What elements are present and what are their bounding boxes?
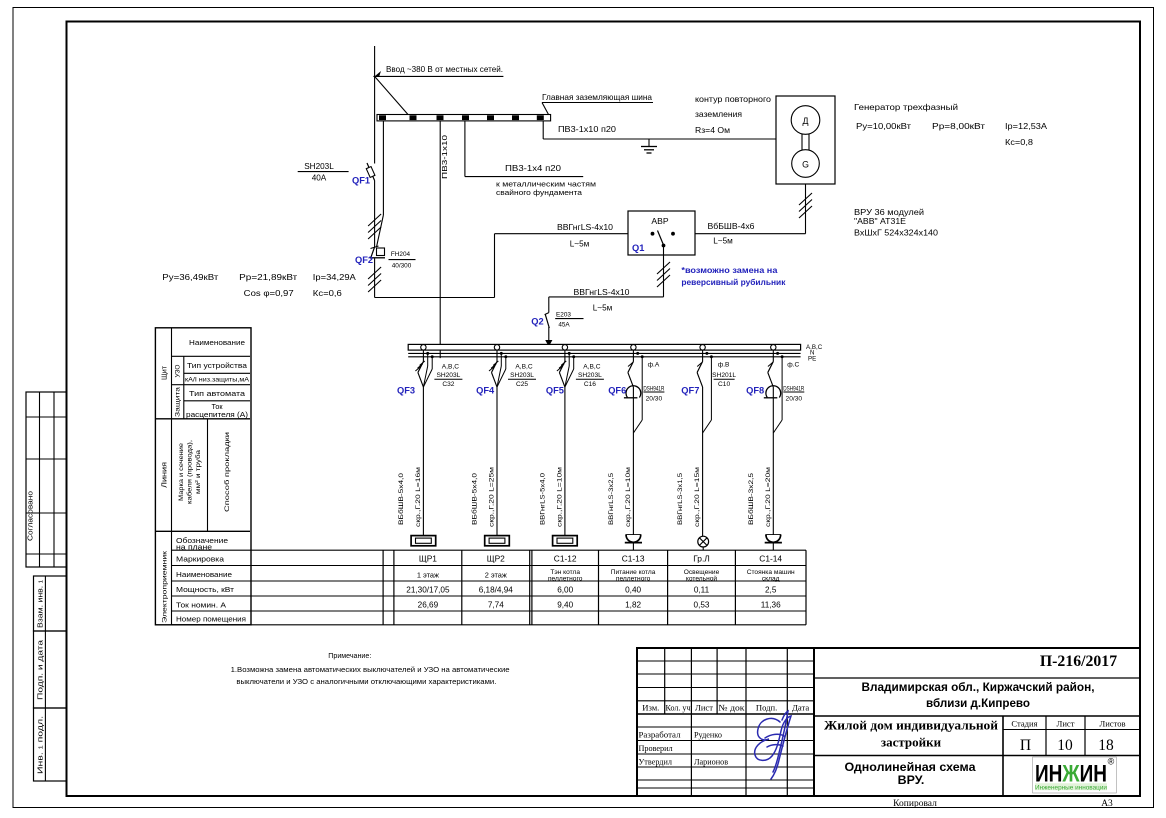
svg-text:SH203L: SH203L (510, 372, 534, 379)
svg-text:DSH941R: DSH941R (783, 385, 804, 392)
svg-text:Кол. уч: Кол. уч (666, 703, 692, 713)
svg-text:Копировал: Копировал (893, 799, 937, 809)
svg-text:1 этаж: 1 этаж (417, 571, 439, 580)
svg-text:скр.,Г.20 L=25м: скр.,Г.20 L=25м (489, 466, 496, 527)
svg-text:SH203L: SH203L (578, 372, 602, 379)
svg-text:26,69: 26,69 (418, 601, 439, 610)
svg-text:С1-12: С1-12 (554, 553, 577, 563)
svg-text:свайного фундамента: свайного фундамента (496, 188, 582, 197)
svg-text:Кс=0,8: Кс=0,8 (1005, 137, 1033, 147)
circuit breaker QF1 (367, 163, 375, 181)
PE conductor ПВ3-1х10 from bus down to PE rail (439, 121, 441, 358)
svg-text:1,82: 1,82 (625, 601, 641, 610)
svg-text:Маркировка: Маркировка (176, 555, 225, 564)
ground symbol (648, 139, 650, 146)
svg-text:0,40: 0,40 (625, 586, 641, 595)
svg-text:С1-13: С1-13 (622, 553, 645, 563)
svg-text:FH204: FH204 (391, 251, 411, 258)
load symbol socket QF6 (632, 527, 634, 535)
svg-text:SH203L: SH203L (304, 162, 334, 171)
svg-text:Генератор трехфазный: Генератор трехфазный (854, 102, 958, 112)
left stamp Инв. № подл. (34, 708, 67, 781)
svg-text:Способ прокладки: Способ прокладки (223, 432, 231, 512)
circuit breaker QF7 (697, 362, 703, 373)
N conductor from bus to QF2 (382, 121, 384, 215)
svg-text:Q2: Q2 (531, 317, 543, 327)
svg-text:кабеля (провода),: кабеля (провода), (186, 440, 194, 504)
svg-text:QF4: QF4 (476, 386, 495, 396)
switch Q2 E203 45A (548, 297, 550, 313)
svg-text:Дата: Дата (792, 703, 809, 713)
svg-text:Наименование: Наименование (189, 338, 245, 347)
RCD symbol DSH941R (766, 386, 781, 398)
svg-text:Тип устройства: Тип устройства (187, 361, 247, 370)
svg-text:Ларионов: Ларионов (694, 758, 728, 767)
svg-text:С10: С10 (718, 381, 730, 388)
svg-text:Наименование: Наименование (176, 570, 232, 579)
svg-text:Iр=12,53А: Iр=12,53А (1005, 121, 1047, 131)
svg-text:QF8: QF8 (746, 386, 764, 396)
svg-text:РЕ: РЕ (808, 356, 816, 363)
svg-text:45А: 45А (558, 321, 570, 328)
svg-text:Владимирская обл., Киржачский: Владимирская обл., Киржачский район, (862, 680, 1095, 694)
svg-text:С32: С32 (442, 381, 454, 388)
svg-text:Жилой дом индивидуальной: Жилой дом индивидуальной (824, 718, 999, 733)
svg-text:Подп. и дата: Подп. и дата (36, 640, 45, 700)
title block frame (637, 648, 1140, 796)
ATS box АВР with changeover switch Q1 (628, 211, 695, 255)
node PE tap QF4 (504, 355, 507, 358)
circuit breaker QF4 (492, 362, 498, 373)
svg-text:ф.С: ф.С (787, 362, 799, 369)
svg-text:мм² и труба: мм² и труба (194, 450, 202, 494)
wire ATS output down (663, 246, 665, 297)
shaft coupling (801, 134, 803, 150)
svg-text:П: П (1020, 737, 1031, 754)
wire QF2 down to ATS feed (374, 259, 376, 298)
svg-text:пеллетного: пеллетного (616, 575, 651, 582)
svg-text:Главная заземляющая шина: Главная заземляющая шина (542, 93, 652, 102)
svg-text:ЩР1: ЩР1 (419, 553, 437, 563)
svg-text:11,36: 11,36 (761, 601, 781, 610)
svg-text:Согласовано: Согласовано (26, 491, 35, 541)
svg-text:Cos φ=0,97: Cos φ=0,97 (244, 288, 294, 298)
wire generator to ATS right input (805, 184, 807, 234)
svg-text:Рр=8,00кВт: Рр=8,00кВт (932, 121, 985, 131)
left stamp table Согласовано (26, 392, 67, 567)
svg-text:С25: С25 (516, 381, 528, 388)
svg-text:ВВГнгLS-3х2,5: ВВГнгLS-3х2,5 (608, 473, 615, 525)
svg-text:Щит: Щит (160, 365, 169, 380)
svg-text:№ док: № док (719, 703, 746, 713)
load symbol rect QF3 (422, 527, 424, 536)
svg-text:ПВ3-1х10: ПВ3-1х10 (440, 135, 449, 179)
svg-text:QF5: QF5 (546, 386, 564, 396)
node N tap QF3 (426, 352, 429, 355)
wire branch QF3 down (422, 387, 424, 527)
svg-text:Инженерные инновации: Инженерные инновации (1035, 785, 1107, 791)
branch QF7 tap on busbar (700, 345, 705, 350)
svg-text:10: 10 (1057, 737, 1073, 754)
PE rail (408, 356, 800, 358)
wire: QF2 output to ATS left input (375, 297, 495, 299)
svg-text:ВБбШВ-5х4,0: ВБбШВ-5х4,0 (397, 473, 405, 525)
svg-text:SH203L: SH203L (436, 372, 460, 379)
svg-text:Q1: Q1 (632, 243, 644, 253)
svg-text:скр.,Г.20 L=15м: скр.,Г.20 L=15м (694, 466, 701, 527)
svg-text:С1-14: С1-14 (759, 553, 782, 563)
svg-text:УЗО: УЗО (175, 364, 182, 377)
svg-text:Rз=4 Ом: Rз=4 Ом (695, 126, 730, 135)
svg-text:6,00: 6,00 (557, 586, 573, 595)
svg-text:1.Возможна замена автоматическ: 1.Возможна замена автоматических выключа… (231, 665, 510, 674)
data table columns (382, 550, 384, 625)
svg-text:Ру=36,49кВт: Ру=36,49кВт (162, 272, 218, 282)
svg-text:9,40: 9,40 (557, 601, 573, 610)
node PE tap QF7 (710, 355, 713, 358)
svg-text:АВР: АВР (651, 216, 668, 226)
svg-text:Инв. 1 подл.: Инв. 1 подл. (36, 716, 45, 774)
svg-text:QF6: QF6 (608, 386, 626, 396)
svg-text:Изм.: Изм. (642, 703, 659, 713)
svg-text:пеллетного: пеллетного (548, 575, 583, 582)
svg-text:40А: 40А (312, 174, 327, 183)
svg-text:Гр.Л: Гр.Л (693, 553, 710, 563)
circuit breaker QF8 (768, 362, 774, 373)
data table rows (172, 549, 807, 551)
branch QF5 tap on busbar (562, 345, 567, 350)
svg-text:Марка и сечение: Марка и сечение (178, 443, 185, 501)
svg-text:скр.,Г.20 L=20м: скр.,Г.20 L=20м (765, 466, 772, 527)
circuit breaker QF3 (418, 362, 424, 373)
svg-text:Стадия: Стадия (1011, 719, 1037, 729)
svg-text:А,В,С: А,В,С (442, 364, 459, 371)
schedule header table (155, 328, 251, 625)
node PE tap QF6 (641, 355, 644, 358)
svg-text:С16: С16 (584, 381, 596, 388)
load symbol lamp QF7 (702, 527, 704, 536)
svg-text:Защита: Защита (175, 386, 182, 417)
svg-text:"АВВ" АТ31Е: "АВВ" АТ31Е (854, 217, 907, 226)
svg-text:Лист: Лист (1057, 719, 1075, 729)
svg-text:QF3: QF3 (397, 386, 415, 396)
svg-text:котельной: котельной (686, 574, 717, 582)
node N tap QF5 (568, 352, 571, 355)
wire branch QF5 down (564, 387, 566, 527)
load symbol rect QF4 (496, 527, 498, 536)
main earthing bus ГЗШ (377, 115, 551, 121)
circuit breaker QF5 (559, 362, 565, 373)
signature (blue scribble) (755, 711, 791, 779)
N rail (408, 352, 800, 354)
RCD QF2 (FH204 40/300) (371, 247, 375, 259)
svg-text:ВБбШВ-5х4,0: ВБбШВ-5х4,0 (471, 473, 479, 525)
circuit breaker QF6 (628, 362, 634, 373)
svg-text:ВхШхГ 524х324х140: ВхШхГ 524х324х140 (854, 229, 938, 238)
svg-text:склад: склад (762, 575, 780, 582)
left stamp Взам. инв. № (34, 576, 67, 631)
svg-text:ПВ3-1х4 п20: ПВ3-1х4 п20 (505, 164, 562, 173)
Линия section (207, 419, 209, 532)
svg-text:Проверил: Проверил (639, 744, 673, 753)
node: input 380V arrow (374, 46, 376, 76)
wire branch QF7 down (702, 387, 704, 527)
node N tap QF7 (705, 352, 708, 355)
svg-text:заземления: заземления (695, 110, 742, 119)
branch QF3 tap on busbar (421, 345, 426, 350)
svg-text:вблизи д.Кипрево: вблизи д.Кипрево (926, 696, 1030, 710)
svg-text:скр.,Г.20 L=10м: скр.,Г.20 L=10м (556, 466, 563, 527)
branch QF6 tap on busbar (631, 345, 636, 350)
svg-text:QF1: QF1 (352, 176, 370, 186)
title block left grid (664, 648, 666, 714)
svg-text:Разработал: Разработал (639, 731, 681, 740)
svg-text:ВбБШВ-4х6: ВбБШВ-4х6 (708, 222, 755, 231)
svg-text:П-216/2017: П-216/2017 (1040, 653, 1117, 670)
svg-text:7,74: 7,74 (488, 601, 504, 610)
svg-text:А,В,С: А,В,С (583, 364, 600, 371)
generator box (776, 96, 835, 184)
left stamp Подп. и дата (34, 631, 67, 708)
Щит section (183, 356, 185, 419)
svg-text:выключатели и УЗО с аналогичны: выключатели и УЗО с аналогичными отключа… (236, 677, 496, 686)
svg-text:Лист: Лист (695, 703, 713, 713)
svg-text:реверсивный рубильник: реверсивный рубильник (681, 277, 786, 287)
wire branch QF8 down (772, 387, 774, 527)
generator alternator circle G (792, 150, 820, 178)
RCD symbol DSH941R (626, 386, 641, 398)
branch QF8 tap on busbar (771, 345, 776, 350)
svg-text:21,30/17,05: 21,30/17,05 (406, 586, 450, 595)
svg-text:ВРУ 36 модулей: ВРУ 36 модулей (854, 208, 924, 217)
svg-text:Электроприемник: Электроприемник (162, 551, 169, 623)
node PE tap QF3 (431, 355, 434, 358)
svg-text:Руденко: Руденко (694, 731, 722, 740)
svg-text:Подп.: Подп. (756, 703, 777, 713)
svg-text:Однолинейная схема: Однолинейная схема (845, 760, 976, 774)
wire QF1 to QF2 with cable marks (374, 181, 376, 248)
load symbol socket QF8 (772, 527, 774, 535)
svg-text:Листов: Листов (1099, 719, 1125, 729)
PE branch to foundation (464, 121, 466, 177)
svg-text:0,11: 0,11 (694, 586, 710, 595)
svg-text:ВБбШВ-3х2,5: ВБбШВ-3х2,5 (747, 473, 755, 525)
svg-text:Взам. инв. 1: Взам. инв. 1 (36, 580, 45, 628)
svg-text:18: 18 (1098, 737, 1114, 754)
svg-text:0,53: 0,53 (694, 601, 710, 610)
svg-text:QF2: QF2 (355, 255, 373, 265)
branch QF4 tap on busbar (494, 345, 499, 350)
svg-text:ВВГнгLS-4х10: ВВГнгLS-4х10 (557, 223, 613, 232)
load symbol rect QF5 (564, 527, 566, 536)
svg-text:SH201L: SH201L (712, 372, 736, 379)
svg-text:E203: E203 (556, 312, 571, 319)
svg-text:*возможно замена на: *возможно замена на (681, 265, 777, 275)
svg-text:ф.А: ф.А (648, 362, 660, 369)
svg-text:Мощность, кВт: Мощность, кВт (176, 585, 235, 594)
svg-text:скр.,Г.20 L=16м: скр.,Г.20 L=16м (415, 466, 422, 527)
svg-text:Примечание:: Примечание: (328, 651, 371, 660)
node PE tap QF5 (572, 355, 575, 358)
svg-text:расцепителя (А): расцепителя (А) (186, 410, 248, 419)
svg-text:2 этаж: 2 этаж (485, 571, 507, 580)
svg-text:Ввод ~380 В от местных сетей.: Ввод ~380 В от местных сетей. (386, 65, 503, 74)
PE wire from bus to generator circuit (542, 121, 544, 139)
node PE tap QF8 (781, 355, 784, 358)
svg-text:Кс=0,6: Кс=0,6 (313, 288, 342, 298)
svg-text:ВРУ.: ВРУ. (898, 773, 925, 787)
svg-text:6,18/4,94: 6,18/4,94 (479, 586, 514, 595)
wire branch QF4 down (496, 387, 498, 527)
logo ИНЖИН (1033, 757, 1117, 793)
svg-text:ВВГнгLS-5х4,0: ВВГнгLS-5х4,0 (539, 473, 546, 525)
wire branch QF6 down (632, 387, 634, 527)
svg-text:Тип автомата: Тип автомата (189, 389, 246, 398)
wire: input down to QF1 (374, 76, 376, 163)
node N tap QF4 (500, 352, 503, 355)
wire: input diagonal to main earthing bus (375, 76, 408, 114)
svg-text:А,В,С: А,В,С (515, 364, 532, 371)
svg-text:L~5м: L~5м (593, 304, 613, 313)
svg-text:ПВ3-1х10 п20: ПВ3-1х10 п20 (558, 125, 616, 134)
svg-text:Ток номин. А: Ток номин. А (176, 601, 226, 610)
svg-text:L~5м: L~5м (713, 237, 733, 246)
svg-text:Iр=34,29А: Iр=34,29А (313, 272, 356, 282)
node N tap QF8 (776, 352, 779, 355)
svg-text:кА/I низ.защиты,мА: кА/I низ.защиты,мА (185, 377, 250, 384)
generator engine circle Д (791, 106, 820, 135)
svg-text:Рр=21,89кВт: Рр=21,89кВт (239, 272, 297, 282)
svg-text:®: ® (1108, 757, 1115, 767)
svg-text:Утвердил: Утвердил (639, 758, 672, 767)
svg-text:застройки: застройки (881, 735, 942, 750)
svg-text:Д: Д (803, 116, 809, 126)
svg-text:40/300: 40/300 (392, 262, 412, 269)
svg-text:G: G (802, 160, 809, 170)
node N tap QF6 (636, 352, 639, 355)
svg-text:А3: А3 (1101, 799, 1113, 809)
svg-text:ЩР2: ЩР2 (487, 553, 505, 563)
svg-text:ВВГнгLS-4х10: ВВГнгLS-4х10 (574, 288, 630, 297)
svg-text:Линия: Линия (160, 462, 169, 488)
svg-text:контур повторного: контур повторного (695, 95, 771, 104)
svg-text:скр.,Г.20 L=10м: скр.,Г.20 L=10м (625, 466, 632, 527)
svg-text:Ру=10,00кВт: Ру=10,00кВт (856, 121, 911, 131)
svg-text:ф.В: ф.В (718, 362, 730, 369)
title block right part (814, 677, 1140, 679)
svg-text:20/30: 20/30 (786, 395, 803, 402)
distribution busbar A,B,C (408, 344, 800, 350)
svg-text:QF7: QF7 (681, 386, 699, 396)
svg-text:L~5м: L~5м (570, 240, 590, 249)
svg-text:Номер помещения: Номер помещения (176, 615, 246, 624)
svg-text:20/30: 20/30 (646, 395, 663, 402)
svg-text:ВВГнгLS-3х1,5: ВВГнгLS-3х1,5 (677, 473, 684, 525)
svg-text:2,5: 2,5 (765, 586, 777, 595)
svg-text:DSH941R: DSH941R (643, 385, 664, 392)
